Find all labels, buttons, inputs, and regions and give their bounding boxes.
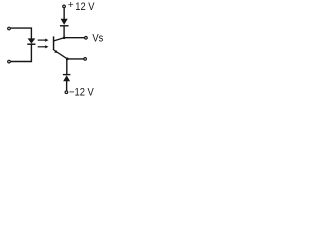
node: emitter junction <box>66 58 69 61</box>
Q1 emitter lead <box>54 50 68 59</box>
diode D2 triangle <box>61 19 68 25</box>
Q1 emitter arrowhead <box>54 50 58 53</box>
wire: top-left terminal to LED anode <box>11 28 32 39</box>
LED D1 cathode bar <box>27 43 35 45</box>
diode D3 triangle <box>63 75 70 81</box>
svg-text:12 V: 12 V <box>75 1 95 13</box>
phototransistor Q1 base bar <box>53 36 55 50</box>
wire: emitter junction to lower output terminal <box>67 58 83 60</box>
terminal +12V <box>63 5 66 8</box>
LED D1 triangle <box>28 38 36 43</box>
node: collector junction <box>63 36 66 39</box>
svg-text:+: + <box>68 0 74 11</box>
diode D2 cathode bar <box>60 25 69 27</box>
wire: diode D2 to +12V terminal <box>63 8 65 19</box>
input terminal top-left <box>8 27 11 30</box>
Q1 collector lead <box>54 38 64 41</box>
wire: diode D3 to -12V terminal <box>66 81 68 91</box>
light arrow 2 <box>38 45 49 48</box>
wire: collector junction to Vs terminal <box>64 37 84 39</box>
input terminal bottom-left <box>8 60 11 63</box>
diode D3 cathode bar <box>63 74 71 76</box>
wire: collector junction up to diode D2 <box>63 26 65 38</box>
svg-text:−12 V: −12 V <box>69 86 94 98</box>
wire: emitter junction down to diode D3 <box>66 59 68 75</box>
svg-text:Vs: Vs <box>92 32 103 44</box>
terminal -12V <box>65 91 68 94</box>
label + 12 V <box>68 0 95 13</box>
light arrow 1 <box>38 39 49 42</box>
wire: LED cathode to bottom-left terminal <box>11 44 32 61</box>
terminal output lower <box>84 58 87 61</box>
terminal Vs <box>85 37 88 40</box>
